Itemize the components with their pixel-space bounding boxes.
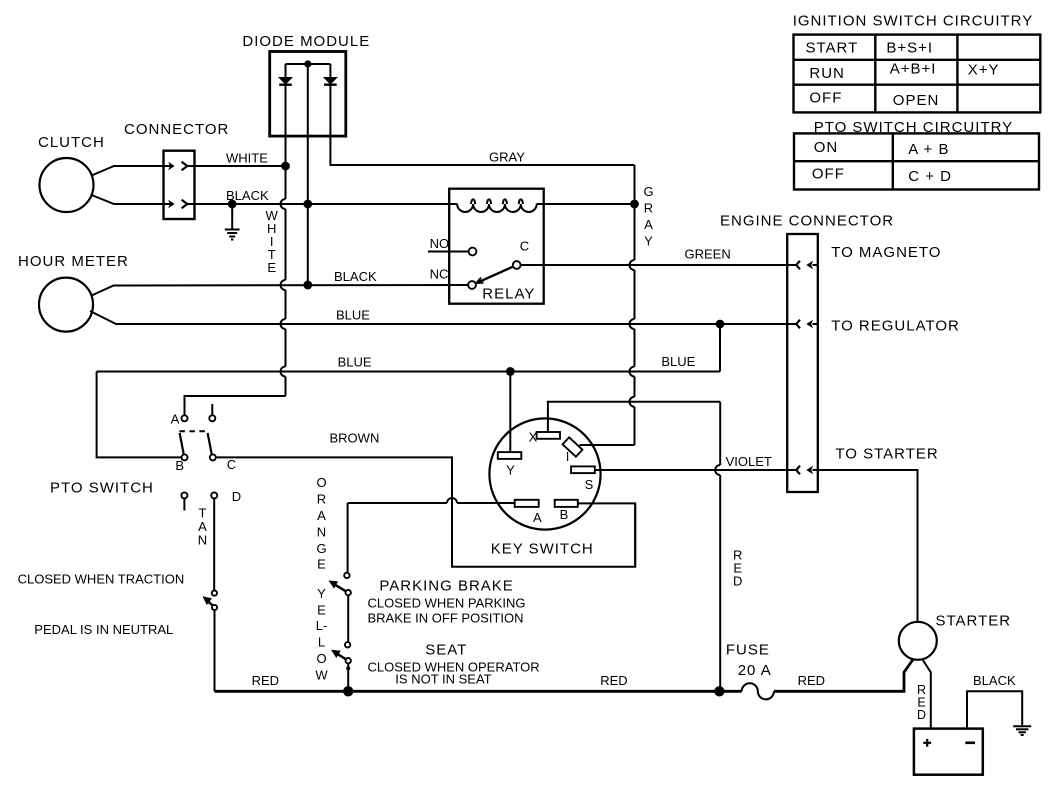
svg-text:D: D xyxy=(232,489,241,504)
svg-text:OFF: OFF xyxy=(809,90,842,107)
key switch terminal X label xyxy=(529,430,538,445)
svg-text:WHITE: WHITE xyxy=(226,151,268,166)
svg-text:B: B xyxy=(175,458,184,473)
svg-text:OPEN: OPEN xyxy=(893,92,940,109)
wire seat down to red xyxy=(347,664,349,692)
svg-text:O: O xyxy=(316,475,326,490)
connector pin chevrons black row xyxy=(164,200,188,209)
key switch terminal Y xyxy=(498,452,522,459)
junction dot black ground tap xyxy=(228,200,237,209)
wire key switch A lower horizontal with hop xyxy=(348,498,515,503)
svg-text:A: A xyxy=(533,510,542,525)
key switch terminal X xyxy=(537,432,560,439)
parking brake label xyxy=(379,578,513,595)
svg-text:HOUR METER: HOUR METER xyxy=(18,253,129,270)
junction dot red fuse xyxy=(714,686,724,696)
wire RED label left xyxy=(252,673,279,688)
pto switch top right terminal stub xyxy=(209,404,215,421)
svg-text:CONNECTOR: CONNECTOR xyxy=(124,121,229,138)
wire gray vertical label xyxy=(643,184,653,249)
key switch terminal A label xyxy=(533,510,542,525)
svg-text:B+S+I: B+S+I xyxy=(886,39,933,56)
wire BLACK label battery xyxy=(973,673,1016,688)
wire GRAY label horizontal xyxy=(489,150,525,165)
clutch circle xyxy=(40,158,94,212)
pto switch blade C xyxy=(208,433,212,455)
relay NC contact circle xyxy=(468,281,476,289)
svg-text:NO: NO xyxy=(430,236,450,251)
wire GREEN label xyxy=(685,247,731,262)
svg-text:CLOSED WHEN PARKING: CLOSED WHEN PARKING xyxy=(368,595,526,610)
pto switch terminal B circle xyxy=(182,454,188,460)
svg-text:TO MAGNETO: TO MAGNETO xyxy=(831,244,941,261)
svg-text:TO REGULATOR: TO REGULATOR xyxy=(831,318,960,335)
wire TAN label xyxy=(198,506,207,548)
wire orange vertical xyxy=(347,503,349,572)
relay NO label xyxy=(430,236,450,251)
svg-text:TO STARTER: TO STARTER xyxy=(835,445,938,462)
relay NO contact circle xyxy=(469,248,477,256)
svg-text:A: A xyxy=(171,412,180,427)
engine connector chevrons starter row xyxy=(796,466,817,475)
svg-text:E: E xyxy=(317,603,326,618)
svg-text:C: C xyxy=(520,239,529,254)
svg-text:C: C xyxy=(227,457,236,472)
svg-text:RELAY: RELAY xyxy=(482,286,535,303)
battery xyxy=(914,729,983,775)
svg-text:G: G xyxy=(643,184,653,199)
svg-text:VIOLET: VIOLET xyxy=(726,454,772,469)
svg-text:IS NOT IN SEAT: IS NOT IN SEAT xyxy=(395,672,491,687)
diode D2 right xyxy=(324,64,337,85)
engine connector label xyxy=(720,213,894,230)
junction dot blue link xyxy=(716,320,725,329)
junction dot diode bar xyxy=(304,60,311,67)
diode module center leg wire xyxy=(307,64,309,285)
wire BLUE label lower left xyxy=(338,355,372,370)
svg-text:ON: ON xyxy=(814,139,839,156)
svg-text:PEDAL IS IN NEUTRAL: PEDAL IS IN NEUTRAL xyxy=(34,622,173,637)
svg-text:RUN: RUN xyxy=(809,65,845,82)
relay NC label xyxy=(430,267,449,282)
relay switch blade xyxy=(476,267,513,284)
svg-text:X: X xyxy=(529,430,538,445)
wire black horizontal to relay coil and gray line xyxy=(187,203,634,205)
svg-text:NC: NC xyxy=(430,267,449,282)
key switch terminal B label xyxy=(560,507,569,522)
svg-text:GREEN: GREEN xyxy=(685,247,731,262)
parking brake switch xyxy=(329,573,351,596)
pto switch terminal C circle xyxy=(210,454,216,460)
svg-text:DIODE MODULE: DIODE MODULE xyxy=(242,33,370,50)
starter circle xyxy=(899,622,937,660)
pto switch dashed gang link xyxy=(179,430,208,432)
svg-text:BRAKE IN OFF POSITION: BRAKE IN OFF POSITION xyxy=(368,611,524,626)
to regulator label xyxy=(831,318,960,335)
wire blue1 hour meter to engine connector xyxy=(120,323,796,325)
engine connector box xyxy=(787,234,818,492)
svg-text:C + D: C + D xyxy=(908,168,952,185)
svg-text:Y: Y xyxy=(644,234,653,249)
ground symbol left xyxy=(225,204,240,240)
svg-text:START: START xyxy=(806,39,859,56)
closed when parking label xyxy=(368,595,526,610)
svg-text:PARKING BRAKE: PARKING BRAKE xyxy=(379,578,513,595)
hour meter circle xyxy=(39,278,93,332)
to magneto label xyxy=(831,244,941,261)
wire blue2 horizontal xyxy=(97,371,720,373)
svg-text:FUSE: FUSE xyxy=(726,642,770,659)
wire ORANGE vertical label xyxy=(316,475,326,572)
svg-text:PTO SWITCH: PTO SWITCH xyxy=(50,480,154,497)
key switch terminal A xyxy=(515,500,539,507)
key switch terminal I label xyxy=(566,449,570,464)
key switch terminal S xyxy=(571,466,595,473)
svg-text:RED: RED xyxy=(798,673,825,688)
svg-text:S: S xyxy=(585,477,594,492)
wire tan lower to red wire xyxy=(214,610,216,691)
wire BLACK label xyxy=(226,188,269,203)
wire red link vertical label xyxy=(733,548,742,589)
svg-text:I: I xyxy=(566,449,570,464)
wire BLUE label lower right xyxy=(661,354,695,369)
pto switch terminal C label xyxy=(227,457,236,472)
wire BLUE label upper xyxy=(336,307,370,322)
engine connector chevrons regulator row xyxy=(796,320,817,329)
wire key switch X up and over to red link xyxy=(548,402,720,432)
relay C label xyxy=(520,239,529,254)
wire VIOLET label xyxy=(726,454,772,469)
hour meter bottom lead wire xyxy=(90,311,122,324)
ignition switch circuitry table title xyxy=(793,13,1034,30)
ignition switch circuitry table xyxy=(794,35,1041,113)
closed when operator label xyxy=(368,660,540,675)
wire white vertical with hops down to pto A xyxy=(185,166,286,415)
wire BROWN label xyxy=(330,431,380,446)
ground symbol right xyxy=(1013,726,1031,735)
svg-text:W: W xyxy=(315,668,328,683)
wire red fuse to starter xyxy=(774,660,913,692)
hour meter top lead wire xyxy=(92,286,121,296)
relay coil scallops xyxy=(457,199,537,212)
svg-text:A+B+I: A+B+I xyxy=(890,61,937,78)
relay box xyxy=(449,189,544,304)
key switch terminal S label xyxy=(585,477,594,492)
to starter label xyxy=(835,445,938,462)
wire brown from pto C to key switch B xyxy=(216,457,635,566)
svg-text:A: A xyxy=(317,508,326,523)
wire white vertical from diode D1 to white junction xyxy=(285,85,287,166)
wire red bottom horizontal xyxy=(215,690,742,693)
svg-text:STARTER: STARTER xyxy=(936,613,1012,630)
diode D1 left xyxy=(279,64,292,85)
key switch label xyxy=(491,541,594,558)
junction dot black2 at diode center leg xyxy=(303,281,312,290)
svg-text:ENGINE CONNECTOR: ENGINE CONNECTOR xyxy=(720,213,894,230)
svg-text:IGNITION SWITCH CIRCUITRY: IGNITION SWITCH CIRCUITRY xyxy=(793,13,1034,30)
pto switch terminal D label xyxy=(232,489,241,504)
relay NO stub wire xyxy=(428,251,469,253)
svg-text:BLUE: BLUE xyxy=(338,355,372,370)
svg-text:KEY SWITCH: KEY SWITCH xyxy=(491,541,594,558)
wire red link vertical from X wire with violet hop xyxy=(715,402,720,692)
svg-text:OFF: OFF xyxy=(812,165,845,182)
wire WHITE label xyxy=(226,151,268,166)
wire key switch B link down to brown xyxy=(634,503,636,566)
svg-text:N: N xyxy=(317,524,326,539)
svg-text:L-: L- xyxy=(316,618,328,633)
wire white vertical label xyxy=(266,208,279,275)
svg-text:BROWN: BROWN xyxy=(330,431,380,446)
svg-text:BLUE: BLUE xyxy=(336,307,370,322)
svg-text:CLUTCH: CLUTCH xyxy=(38,134,105,151)
junction dot gray relay coil xyxy=(630,200,639,209)
relay label xyxy=(482,286,535,303)
pto switch label xyxy=(50,480,154,497)
starter label xyxy=(936,613,1012,630)
svg-text:CLOSED WHEN TRACTION: CLOSED WHEN TRACTION xyxy=(18,572,185,587)
wire RED label starter lead xyxy=(917,683,926,722)
wire YELLOW vertical label xyxy=(315,586,328,683)
svg-text:E: E xyxy=(267,260,276,275)
wire blue2 left vertical to pto B xyxy=(97,372,182,458)
svg-text:X+Y: X+Y xyxy=(968,61,1000,78)
svg-text:G: G xyxy=(316,541,326,556)
svg-text:D: D xyxy=(733,574,742,589)
svg-text:O: O xyxy=(316,651,326,666)
pto switch terminal A label xyxy=(171,412,180,427)
fuse symbol xyxy=(742,683,774,699)
clutch top lead wire xyxy=(92,166,164,176)
svg-text:SEAT: SEAT xyxy=(425,642,467,659)
wire black hour meter to relay NC xyxy=(118,284,468,287)
wire green from relay C to engine connector xyxy=(521,264,797,266)
wire violet from S to engine connector xyxy=(595,469,797,471)
svg-text:BLUE: BLUE xyxy=(661,354,695,369)
svg-text:L: L xyxy=(318,635,325,650)
svg-text:R: R xyxy=(317,491,326,506)
wire battery negative to ground xyxy=(967,691,1022,728)
svg-text:GRAY: GRAY xyxy=(489,150,525,165)
wire gray horizontal from diode D2 xyxy=(330,85,634,165)
svg-text:Y: Y xyxy=(506,463,515,478)
pto switch blade B xyxy=(180,433,184,455)
brake in off position label xyxy=(368,611,524,626)
pto switch circuitry table title xyxy=(814,119,1013,136)
wire blue link vertical xyxy=(719,324,721,372)
seat switch xyxy=(331,642,351,663)
fuse label xyxy=(726,642,770,659)
wire gray vertical with hops xyxy=(630,165,635,445)
svg-text:E: E xyxy=(317,556,326,571)
svg-text:20 A: 20 A xyxy=(738,662,772,679)
key switch terminal B xyxy=(555,500,578,507)
wire violet engine connector to starter xyxy=(818,470,918,622)
pto switch terminal D circle xyxy=(211,492,217,498)
closed when traction label xyxy=(18,572,185,587)
svg-text:D: D xyxy=(917,708,926,722)
key switch terminal I diamond xyxy=(563,437,583,456)
junction dot white xyxy=(281,162,290,171)
pto switch circuitry table xyxy=(794,133,1039,189)
clutch label xyxy=(38,134,105,151)
wire yellow between switches xyxy=(347,596,349,642)
pto switch terminal B label xyxy=(175,458,184,473)
key switch terminal Y label xyxy=(506,463,515,478)
pto switch bottom left terminal stub xyxy=(181,492,187,510)
diode module box xyxy=(270,52,346,137)
svg-text:RED: RED xyxy=(252,673,279,688)
wire starter to battery positive xyxy=(923,660,931,729)
wire tan vertical from D xyxy=(213,499,215,590)
svg-text:BLACK: BLACK xyxy=(973,673,1016,688)
junction dot black at diode center leg xyxy=(303,200,312,209)
wire white horizontal xyxy=(187,165,285,167)
wire key switch I to gray xyxy=(580,444,635,446)
pto switch terminal A circle xyxy=(182,415,188,421)
svg-text:B: B xyxy=(560,507,569,522)
svg-text:RED: RED xyxy=(600,673,627,688)
svg-text:BLACK: BLACK xyxy=(334,269,377,284)
connector box xyxy=(164,151,195,219)
svg-text:Y: Y xyxy=(317,586,326,601)
connector label xyxy=(124,121,229,138)
key switch circle xyxy=(489,418,600,529)
wire RED label middle xyxy=(600,673,627,688)
fuse 20 A label xyxy=(738,662,772,679)
seat label xyxy=(425,642,467,659)
engine connector chevrons magneto row xyxy=(796,261,817,270)
traction pedal switch xyxy=(203,591,218,611)
is not in seat label xyxy=(395,672,491,687)
svg-text:A + B: A + B xyxy=(908,141,949,158)
svg-text:N: N xyxy=(198,533,207,548)
junction dot seat pivot xyxy=(346,666,350,670)
clutch bottom lead wire xyxy=(92,195,164,204)
diode module top bar wire xyxy=(286,63,331,65)
relay C contact circle xyxy=(513,261,521,269)
svg-text:R: R xyxy=(644,201,653,216)
wire key switch Y vertical xyxy=(509,372,511,453)
wire RED label right xyxy=(798,673,825,688)
junction dot seat to red xyxy=(343,686,353,696)
connector pin chevrons white row xyxy=(164,162,188,171)
wire BLACK label hour meter xyxy=(334,269,377,284)
diode module label xyxy=(242,33,370,50)
svg-text:A: A xyxy=(644,217,653,232)
junction dot key switch Y tap xyxy=(506,367,515,376)
pedal is in neutral label xyxy=(34,622,173,637)
hour meter label xyxy=(18,253,129,270)
